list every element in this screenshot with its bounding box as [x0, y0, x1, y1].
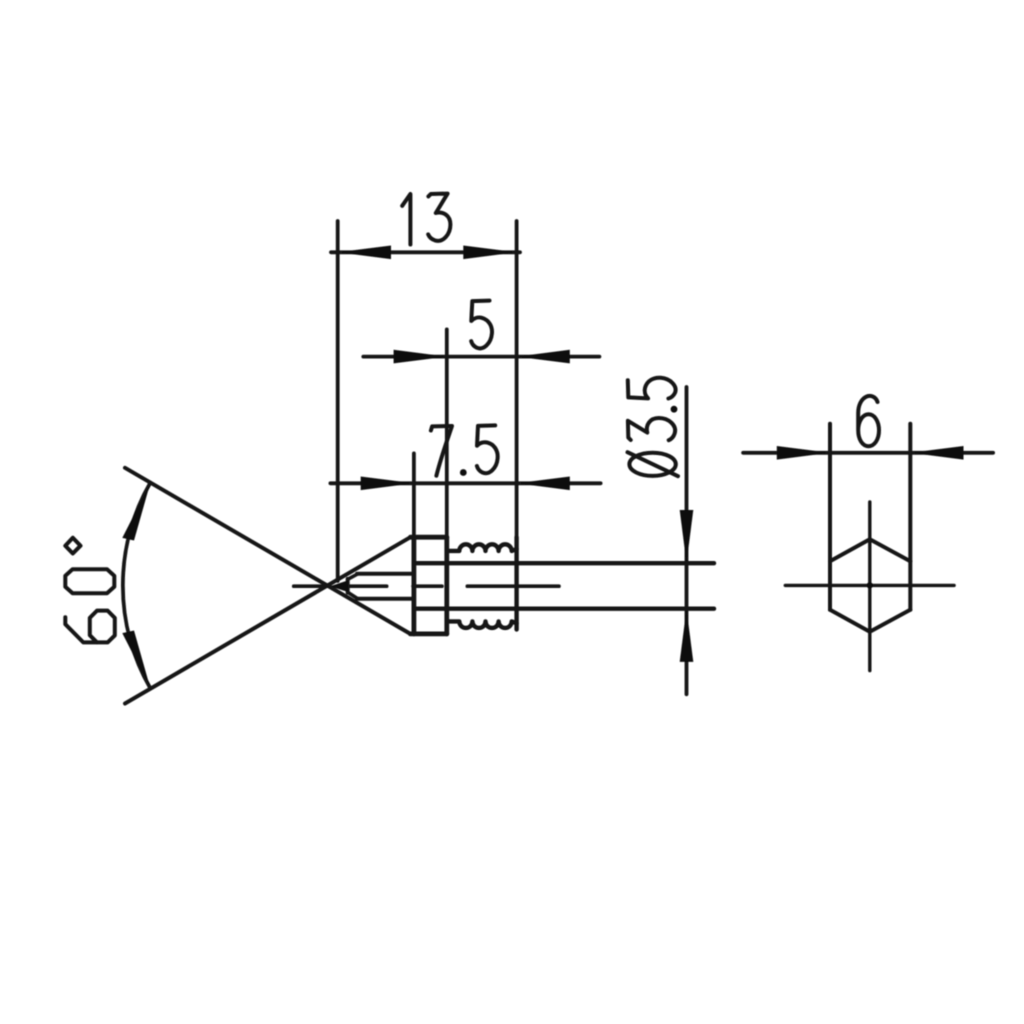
dim 7.5 line: [330, 481, 600, 485]
hex end view: right flat + extension: [908, 424, 912, 610]
dim diameter 3.5 line: [685, 387, 689, 694]
dim 60 lower arc arrow: [122, 631, 150, 689]
60-degree construction line (upper-left to lower cone): [125, 468, 410, 634]
dim 60 text (rotated): [65, 538, 115, 643]
nozzle back face + shared extension line (13/5 right): [515, 221, 519, 537]
60-degree construction line (lower-left to upper cone): [125, 537, 410, 703]
dim 6 left arrow: [777, 446, 830, 460]
dim diameter 3.5 text (rotated): [628, 378, 679, 476]
dim 5 right arrow: [517, 350, 570, 364]
thread crest top: [447, 544, 516, 551]
dim 7.5 left arrow: [361, 477, 414, 491]
dim 13 left arrow: [338, 246, 391, 260]
thread crest bottom: [447, 621, 516, 628]
dim 6 text: [858, 396, 879, 446]
hex flange front face: [411, 537, 416, 634]
dim 5 line: [363, 355, 599, 359]
dim 7.5 text: [431, 425, 498, 476]
dim 7.5 right arrow: [517, 477, 570, 491]
hex end view: horizontal centerline: [785, 584, 954, 587]
hex end view: top edges: [830, 539, 910, 561]
dim 60 upper arc arrow: [122, 483, 150, 541]
tip flat face: [346, 579, 350, 593]
dim 13 text: [402, 194, 450, 245]
dim 13 right arrow: [463, 246, 516, 260]
hex end view: center dot: [867, 582, 873, 588]
hex flange bottom edge: [410, 632, 446, 637]
hex flange back face: [444, 537, 449, 634]
tip arrow: [330, 580, 348, 592]
dim 6 right arrow: [910, 446, 963, 460]
filament bore lower line (Ø3.5 extension): [414, 607, 714, 611]
dim 6 line: [743, 451, 993, 455]
dim 60 degrees arc: [123, 483, 151, 689]
dim 5 left arrow: [394, 350, 447, 364]
tip inner cone lower: [348, 592, 358, 598]
extension line left of dim 13: [336, 221, 340, 581]
tip inner cone upper: [348, 574, 358, 579]
dim diameter 3.5 lower arrow: [680, 609, 694, 662]
hex end view: bottom edges: [830, 610, 910, 632]
hex end view: vertical centerline: [868, 502, 871, 671]
dim 5 text: [471, 301, 492, 349]
tip bore upper line: [357, 572, 414, 576]
filament bore upper line (Ø3.5 extension): [414, 561, 714, 565]
centerline main view: [294, 584, 330, 588]
tip bore lower line: [357, 597, 414, 601]
hex end view: left flat + extension: [828, 424, 832, 610]
extension line left of dim 5: [445, 329, 449, 537]
extension line left of dim 7.5: [412, 453, 416, 537]
dim 13 line: [331, 250, 520, 254]
dim diameter 3.5 upper arrow: [680, 510, 694, 563]
hex flange top edge: [410, 535, 446, 540]
